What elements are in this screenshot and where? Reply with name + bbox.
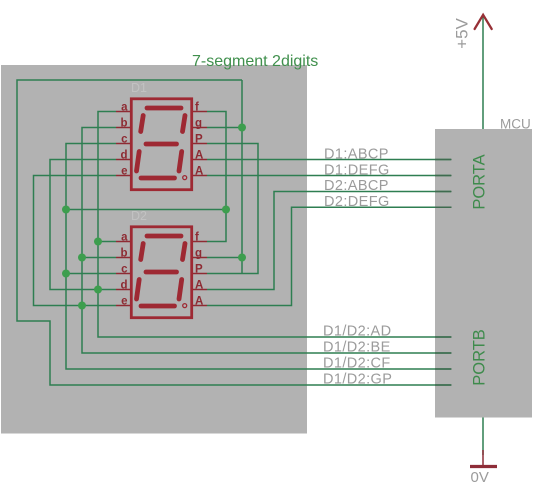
svg-text:g: g [195,118,202,130]
svg-text:A: A [195,280,203,292]
svg-text:D2:DEFG: D2:DEFG [324,194,390,210]
svg-text:f: f [195,232,199,244]
svg-text:D1/D2:BE: D1/D2:BE [323,340,391,356]
svg-text:D1/D2:AD: D1/D2:AD [323,324,391,340]
svg-text:c: c [121,134,128,146]
svg-text:MCU: MCU [500,117,531,132]
svg-text:e: e [121,166,127,178]
svg-text:PORTB: PORTB [471,329,489,386]
svg-text:D1/D2:GP: D1/D2:GP [323,372,392,388]
svg-text:P: P [195,134,203,146]
svg-text:f: f [195,102,199,114]
svg-text:D1/D2:CF: D1/D2:CF [323,356,391,372]
svg-text:7-segment 2digits: 7-segment 2digits [192,53,318,70]
svg-text:D2:ABCP: D2:ABCP [324,178,389,194]
svg-text:0V: 0V [471,469,489,486]
svg-text:A: A [195,166,203,178]
svg-text:D1:ABCP: D1:ABCP [324,147,389,163]
svg-text:b: b [120,118,127,130]
svg-text:a: a [121,102,128,114]
svg-text:c: c [121,264,128,276]
svg-text:D1: D1 [131,81,147,95]
svg-text:D2: D2 [131,209,147,223]
svg-text:e: e [121,296,127,308]
svg-text:PORTA: PORTA [471,154,489,209]
svg-text:g: g [195,248,202,260]
svg-text:a: a [121,232,128,244]
svg-text:D1:DEFG: D1:DEFG [324,163,390,179]
svg-text:d: d [120,280,127,292]
svg-text:b: b [120,248,127,260]
svg-text:d: d [120,150,127,162]
svg-text:P: P [195,264,203,276]
svg-text:A: A [195,296,203,308]
svg-text:A: A [195,150,203,162]
svg-text:+5V: +5V [453,17,472,48]
